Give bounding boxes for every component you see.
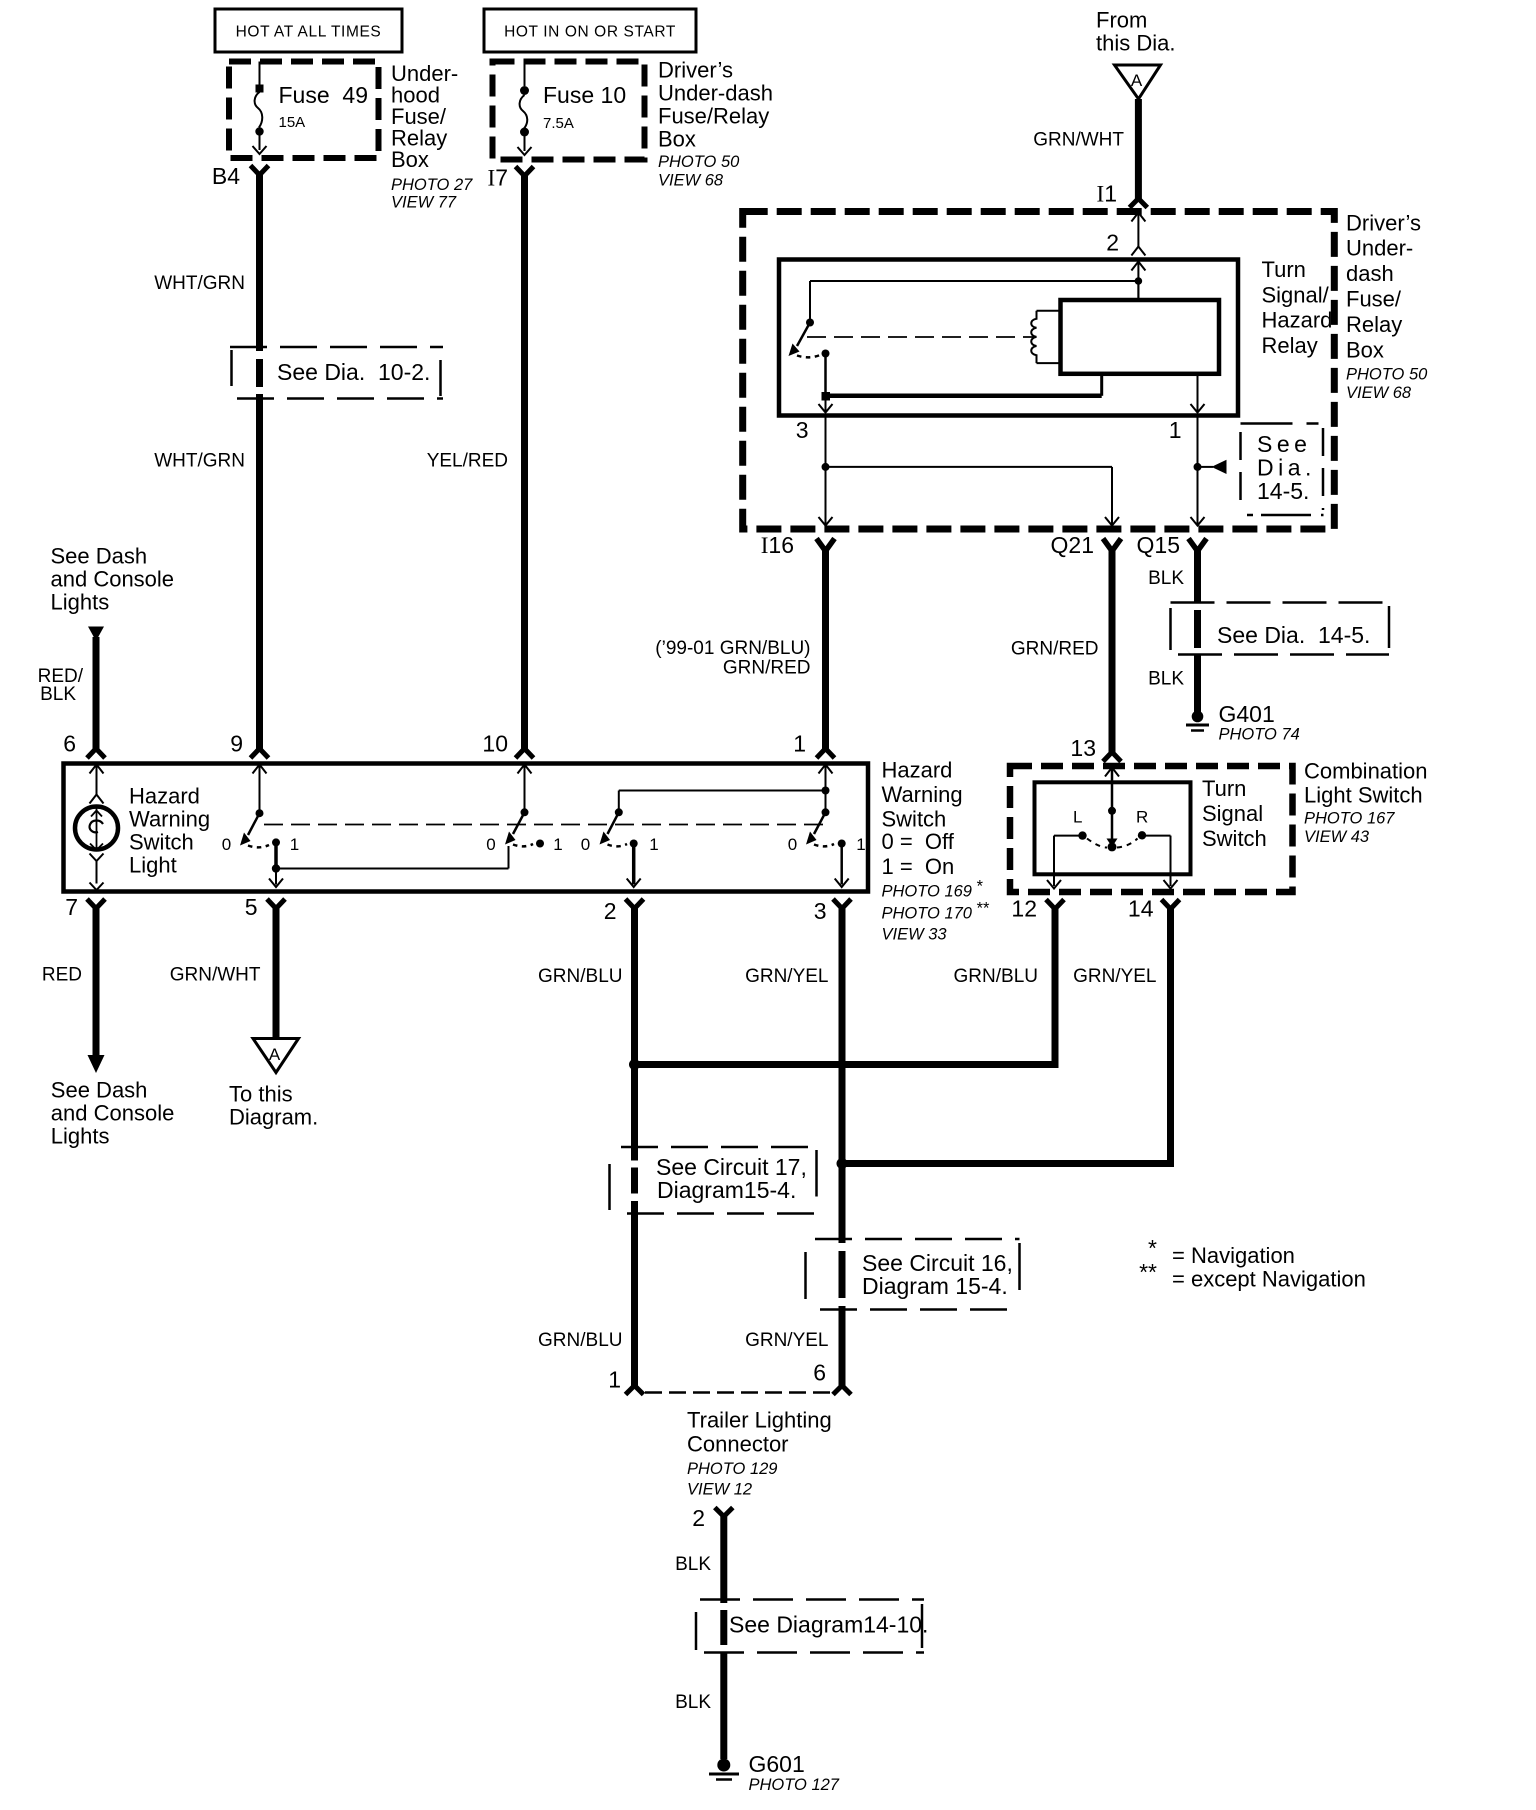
reference box See Dia. 10-2.: [230, 347, 443, 399]
svg-text:GRN/BLU: GRN/BLU: [538, 1330, 622, 1351]
dashed mechanical linkage (hazard switch): [264, 824, 824, 826]
svg-text:VIEW 12: VIEW 12: [687, 1481, 752, 1499]
connector at hazard box pin 9: [251, 749, 269, 759]
svg-text:VIEW 43: VIEW 43: [1304, 828, 1370, 846]
svg-text:Relay: Relay: [1262, 333, 1318, 358]
svg-text:Connector: Connector: [687, 1432, 789, 1457]
label block Driver's Under-dash Fuse/Relay Box (right): [1346, 210, 1428, 401]
svg-text:I1: I1: [1097, 181, 1117, 207]
svg-text:PHOTO 127: PHOTO 127: [749, 1776, 840, 1794]
Underhood Fuse/Relay Box (dashed): [229, 62, 379, 159]
svg-text:6: 6: [63, 731, 76, 757]
svg-text:Driver’s: Driver’s: [658, 58, 733, 83]
svg-text:0: 0: [222, 835, 231, 854]
label box HOT IN ON OR START: [484, 9, 696, 52]
hazard switch light bulb: [75, 765, 118, 891]
label block Underhood Fuse/Relay Box: [391, 61, 473, 212]
svg-text:GRN/YEL: GRN/YEL: [745, 966, 828, 987]
svg-text:10: 10: [482, 731, 508, 757]
svg-text:Under-dash: Under-dash: [658, 81, 773, 106]
label See Dash and Console Lights (top): [51, 544, 175, 615]
svg-text:Turn: Turn: [1262, 257, 1306, 282]
Hazard Warning Switch box: [64, 764, 869, 892]
connector at hazard box pin 10: [516, 749, 534, 759]
svg-text:PHOTO 27: PHOTO 27: [391, 176, 473, 194]
trailer connector dashed link: [645, 1391, 833, 1394]
svg-text:0 = Off: 0 = Off: [882, 829, 955, 854]
svg-text:BLK: BLK: [675, 1692, 711, 1713]
turn signal switch internals: [1047, 768, 1178, 889]
svg-text:YEL/RED: YEL/RED: [427, 451, 508, 472]
wire GRN/WHT from pin 5 to A: [170, 906, 276, 1039]
svg-text:Turn: Turn: [1202, 776, 1246, 801]
trailer connector pin 2: [692, 1505, 733, 1531]
svg-text:PHOTO 167: PHOTO 167: [1304, 809, 1395, 827]
label block Trailer Lighting Connector: [687, 1408, 832, 1499]
svg-text:Q21: Q21: [1051, 532, 1094, 558]
label block Hazard Warning Switch Light (inside): [129, 784, 210, 878]
off-page connector A (from): [1115, 65, 1161, 99]
svg-text:R: R: [1136, 808, 1148, 827]
svg-text:A: A: [1131, 71, 1143, 90]
svg-text:HOT AT ALL TIMES: HOT AT ALL TIMES: [236, 24, 382, 41]
svg-text:Light: Light: [129, 853, 177, 878]
svg-text:1: 1: [1169, 417, 1182, 443]
connector Q21: [1051, 532, 1121, 558]
hazard switch section 2 (left turn output): [581, 791, 826, 888]
svg-text:PHOTO 50: PHOTO 50: [1346, 365, 1428, 383]
connector below hazard pin 5: [267, 899, 285, 909]
svg-text:HOT IN ON OR START: HOT IN ON OR START: [504, 24, 676, 41]
svg-text:Switch: Switch: [129, 830, 194, 855]
svg-text:BLK: BLK: [1148, 669, 1184, 690]
svg-text:Warning: Warning: [129, 807, 210, 832]
relay unit box: [1061, 281, 1220, 374]
fuse Fuse 10 7.5A: [518, 62, 627, 156]
svg-text:*: *: [1148, 1235, 1157, 1261]
wire GRN/BLU from pin 12 joining wire 2: [635, 906, 1056, 1065]
hazard switch section 10 (B+ feed): [486, 765, 562, 855]
svg-text:VIEW 77: VIEW 77: [391, 194, 457, 212]
svg-text:GRN/WHT: GRN/WHT: [1033, 130, 1124, 151]
svg-text:See Dash: See Dash: [51, 544, 148, 569]
svg-text:See Dash: See Dash: [51, 1078, 148, 1103]
wire BLK from trailer pin 2 to G601: [675, 1515, 724, 1759]
svg-text:BLK: BLK: [1148, 568, 1184, 589]
svg-text:Diagram 15-4.: Diagram 15-4.: [862, 1273, 1008, 1299]
label block Hazard Warning Switch legend: [882, 758, 990, 944]
relay coil: [1031, 311, 1060, 363]
svg-text:2: 2: [1106, 230, 1119, 256]
svg-text:= Navigation: = Navigation: [1172, 1243, 1295, 1268]
trailer lighting connector pin 1: [608, 1367, 643, 1395]
svg-text:Signal: Signal: [1202, 801, 1263, 826]
svg-text:Diagram.: Diagram.: [229, 1105, 318, 1130]
svg-text:9: 9: [230, 731, 243, 757]
label box HOT AT ALL TIMES: [215, 9, 402, 52]
svg-text:**: **: [1139, 1259, 1157, 1285]
reference box See Dia. 14-5. (inside driver's box): [1241, 424, 1324, 516]
svg-text:Switch: Switch: [1202, 826, 1267, 851]
svg-text:Box: Box: [1346, 337, 1384, 362]
reference box See Dia. 14-5. (at Q15): [1171, 603, 1390, 655]
svg-text:(’99-01 GRN/BLU): (’99-01 GRN/BLU): [655, 638, 810, 659]
trailer lighting connector pin 6: [813, 1360, 851, 1395]
svg-text:0: 0: [581, 835, 590, 854]
svg-text:6: 6: [813, 1360, 826, 1386]
svg-text:Trailer Lighting: Trailer Lighting: [687, 1408, 832, 1433]
label block Turn Signal/Hazard Relay: [1262, 257, 1333, 358]
svg-text:1 = On: 1 = On: [882, 854, 955, 879]
svg-text:From: From: [1096, 8, 1147, 33]
svg-text:Diagram15-4.: Diagram15-4.: [657, 1177, 796, 1203]
svg-text:1: 1: [553, 835, 562, 854]
wire YEL/RED from I7 to hazard switch pin 10: [427, 173, 525, 751]
ground G401: [1186, 701, 1300, 744]
relay mechanical linkage (dashed): [807, 336, 1034, 338]
svg-text:Driver’s: Driver’s: [1346, 210, 1421, 235]
Combination Light Switch box (dashed): [1010, 766, 1293, 892]
hazard switch section 9 (light feed): [222, 765, 509, 888]
wire BLK from Q15 to G401: [1148, 548, 1197, 712]
svg-text:Box: Box: [658, 127, 696, 152]
svg-text:BLK: BLK: [675, 1554, 711, 1575]
svg-text:I7: I7: [488, 165, 508, 191]
svg-text:Signal/: Signal/: [1262, 282, 1330, 307]
Driver's Under-dash Fuse/Relay Box top (dashed): [493, 62, 645, 160]
svg-text:7.5A: 7.5A: [543, 115, 574, 132]
svg-text:Fuse/: Fuse/: [1346, 287, 1402, 312]
connector below hazard pin 3: [833, 899, 851, 909]
svg-text:Combination: Combination: [1304, 759, 1428, 784]
reference box See Circuit 17, Diagram 15-4.: [610, 1147, 817, 1214]
svg-text:14-5.: 14-5.: [1257, 478, 1309, 504]
svg-text:15A: 15A: [279, 114, 306, 131]
svg-text:1: 1: [856, 835, 865, 854]
svg-text:5: 5: [245, 894, 258, 920]
relay bottom connections: [819, 357, 1205, 413]
svg-text:0: 0: [486, 835, 495, 854]
svg-text:GRN/BLU: GRN/BLU: [954, 966, 1038, 987]
wire GRN/RED from Q21 to turn signal pin 13: [1011, 548, 1121, 762]
connector below hazard pin 2: [626, 899, 644, 909]
svg-text:Hazard: Hazard: [129, 784, 200, 809]
svg-text:Q15: Q15: [1137, 532, 1180, 558]
svg-text:Fuse 49: Fuse 49: [279, 82, 369, 108]
svg-text:See: See: [1257, 431, 1311, 457]
svg-text:I16: I16: [761, 532, 794, 558]
fuse Fuse 49 15A: [253, 62, 369, 155]
Driver's Under-dash Fuse/Relay Box (large dashed): [743, 212, 1335, 530]
wire pin 2 entry from I1: [1106, 213, 1145, 256]
reference box See Circuit 16, Diagram 15-4.: [806, 1239, 1020, 1310]
svg-text:BLK: BLK: [40, 684, 76, 705]
svg-text:B4: B4: [212, 163, 240, 189]
svg-text:PHOTO 129: PHOTO 129: [687, 1460, 777, 1478]
label From this Dia.: [1096, 8, 1175, 56]
wire GRN/RED from I16 to hazard pin 1: [655, 548, 834, 758]
svg-text:VIEW 68: VIEW 68: [658, 172, 724, 190]
svg-text:L: L: [1073, 808, 1082, 827]
connector below pin 12: [1046, 900, 1064, 910]
svg-text:7: 7: [65, 894, 78, 920]
connector below hazard pin 7: [87, 899, 105, 909]
svg-text:this Dia.: this Dia.: [1096, 31, 1175, 56]
svg-text:3: 3: [814, 898, 827, 924]
reference box See Diagram 14-10.: [696, 1600, 928, 1653]
svg-text:GRN/YEL: GRN/YEL: [745, 1330, 828, 1351]
relay internal: pin2 node wire: [810, 262, 1145, 323]
svg-text:Dia.: Dia.: [1257, 455, 1316, 481]
note Navigation legend: [1139, 1235, 1366, 1292]
svg-text:and Console: and Console: [51, 567, 175, 592]
connector below pin 14: [1162, 900, 1180, 910]
wire RED/BLK into hazard pin 6: [38, 627, 105, 759]
svg-text:14: 14: [1128, 896, 1154, 922]
svg-text:1: 1: [608, 1367, 621, 1393]
connector I1: [1097, 181, 1148, 208]
svg-text:Under-: Under-: [1346, 236, 1413, 261]
label block Turn Signal Switch: [1202, 776, 1267, 851]
svg-text:1: 1: [793, 731, 806, 757]
Turn Signal Switch box: [1035, 782, 1191, 874]
svg-text:0: 0: [788, 835, 797, 854]
svg-text:3: 3: [796, 417, 809, 443]
svg-text:To this: To this: [229, 1082, 293, 1107]
svg-text:Lights: Lights: [51, 590, 110, 615]
label To this Diagram.: [229, 1082, 318, 1130]
wire GRN/WHT from A to I1: [1033, 99, 1138, 200]
svg-text:13: 13: [1070, 735, 1096, 761]
svg-text:= except Navigation: = except Navigation: [1172, 1267, 1366, 1292]
ground G601: [709, 1751, 840, 1794]
svg-text:GRN/WHT: GRN/WHT: [170, 965, 261, 986]
hazard switch section 3 (right turn output): [788, 765, 866, 888]
wire RED from pin 7: [42, 906, 105, 1073]
svg-text:RED: RED: [42, 965, 82, 986]
svg-text:Hazard: Hazard: [1262, 308, 1333, 333]
svg-text:G601: G601: [749, 1751, 805, 1777]
svg-text:PHOTO 50: PHOTO 50: [658, 153, 740, 171]
svg-text:See Dia. 10-2.: See Dia. 10-2.: [277, 359, 430, 385]
svg-text:dash: dash: [1346, 261, 1394, 286]
svg-text:GRN/YEL: GRN/YEL: [1073, 966, 1156, 987]
svg-text:1: 1: [290, 835, 299, 854]
svg-text:WHT/GRN: WHT/GRN: [154, 273, 245, 294]
svg-text:Fuse 10: Fuse 10: [543, 82, 626, 108]
svg-text:Box: Box: [391, 147, 429, 172]
label block Driver's Under-dash Fuse/Relay Box: [658, 58, 773, 190]
svg-text:Light Switch: Light Switch: [1304, 782, 1423, 807]
svg-text:WHT/GRN: WHT/GRN: [154, 451, 245, 472]
svg-text:Hazard: Hazard: [882, 758, 953, 783]
svg-text:Relay: Relay: [1346, 312, 1402, 337]
svg-text:VIEW 68: VIEW 68: [1346, 384, 1412, 402]
svg-text:2: 2: [692, 1505, 705, 1531]
svg-text:GRN/BLU: GRN/BLU: [538, 966, 622, 987]
wire GRN/BLU from pin 2 to trailer pin 1: [538, 906, 640, 1388]
svg-text:2: 2: [604, 898, 617, 924]
connector B4: [212, 163, 269, 189]
svg-text:Switch: Switch: [882, 807, 947, 832]
relay switch contact: [789, 319, 830, 358]
svg-text:GRN/RED: GRN/RED: [1011, 639, 1099, 660]
connector I7: [488, 165, 534, 191]
svg-text:PHOTO 74: PHOTO 74: [1219, 726, 1300, 744]
svg-text:See Dia. 14-5.: See Dia. 14-5.: [1217, 622, 1370, 648]
off-page connector A (to): [253, 1039, 299, 1073]
svg-text:See Diagram14-10.: See Diagram14-10.: [729, 1612, 928, 1638]
wire GRN/YEL from pin 3 to trailer pin 6: [745, 906, 847, 1388]
relay box Turn Signal/Hazard Relay: [779, 260, 1238, 416]
svg-text:Warning: Warning: [882, 782, 963, 807]
svg-text:and Console: and Console: [51, 1101, 175, 1126]
connector Q15: [1137, 532, 1207, 558]
svg-text:A: A: [269, 1045, 281, 1064]
connector I16: [761, 532, 835, 558]
svg-text:G401: G401: [1219, 701, 1275, 727]
relay pin 1 wire to Q15: [1169, 417, 1227, 526]
svg-text:12: 12: [1011, 896, 1037, 922]
svg-text:GRN/RED: GRN/RED: [723, 658, 811, 679]
label See Dash and Console Lights (bottom): [51, 1078, 175, 1149]
svg-text:VIEW 33: VIEW 33: [882, 926, 948, 944]
svg-text:Fuse/Relay: Fuse/Relay: [658, 104, 769, 129]
svg-text:Lights: Lights: [51, 1124, 110, 1149]
wire GRN/YEL from pin 14 joining wire 3: [842, 906, 1171, 1164]
wire WHT/GRN from B4 to hazard switch pin 9: [154, 172, 259, 751]
relay pin 3 wire to I16: [796, 417, 1119, 526]
svg-text:1: 1: [649, 835, 658, 854]
label block Combination Light Switch: [1304, 759, 1428, 846]
